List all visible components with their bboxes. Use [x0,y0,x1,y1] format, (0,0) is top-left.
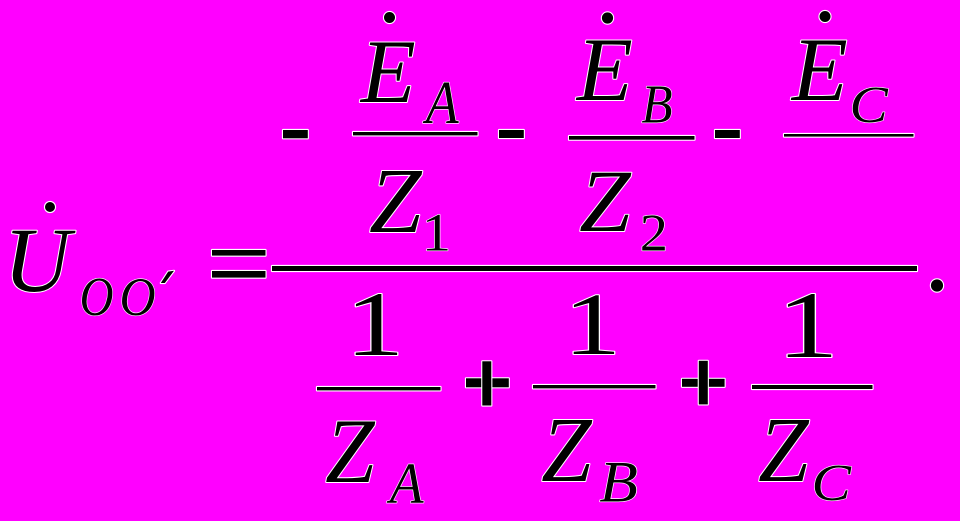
minus sign 3 [715,130,740,138]
plus sign 2 horizontal stroke [682,379,725,387]
svg-text:O: O [80,266,114,328]
svg-text:Z: Z [579,151,632,250]
main fraction bar [272,266,917,271]
fraction bar of E_B/Z_2 [569,136,695,140]
svg-text:B: B [641,75,672,135]
equals sign bottom bar [212,271,266,278]
plus sign 1 vertical stroke [482,361,491,405]
svg-text:A: A [386,453,424,516]
overdot of E_C [820,11,831,22]
svg-text:U: U [4,210,76,312]
svg-text:1: 1 [777,272,839,377]
prime mark of subscript OO' [161,271,174,283]
overdot of E_B [602,12,613,23]
svg-text:1: 1 [422,204,451,263]
minus sign 1 [283,130,308,138]
svg-text:1: 1 [345,273,404,375]
svg-text:O: O [120,268,156,327]
svg-text:E: E [575,19,633,119]
svg-text:Z: Z [758,398,810,502]
svg-text:E: E [359,22,416,122]
svg-text:A: A [422,70,459,137]
svg-text:1: 1 [564,275,621,374]
fraction bar of 1/Z_A [317,387,441,390]
svg-text:2: 2 [640,203,668,262]
svg-text:Z: Z [541,398,593,502]
equals sign top bar [212,250,266,256]
svg-text:Z: Z [369,149,423,253]
plus sign 1 horizontal stroke [466,378,509,387]
fraction bar of E_A/Z_1 [353,132,478,135]
svg-text:Z: Z [325,399,376,502]
minus sign 2 [499,130,524,138]
plus sign 2 vertical stroke [699,361,708,405]
overdot of E_A [384,12,395,23]
svg-text:C: C [811,454,851,512]
fraction bar of E_C [784,134,914,137]
multiplication dot after fraction [931,279,943,291]
overdot of U [45,202,55,212]
fraction bar of 1/Z_C [752,385,873,389]
fraction bar of 1/Z_B [533,385,656,388]
svg-text:B: B [599,451,638,515]
svg-text:C: C [850,75,890,133]
svg-text:E: E [790,19,848,119]
